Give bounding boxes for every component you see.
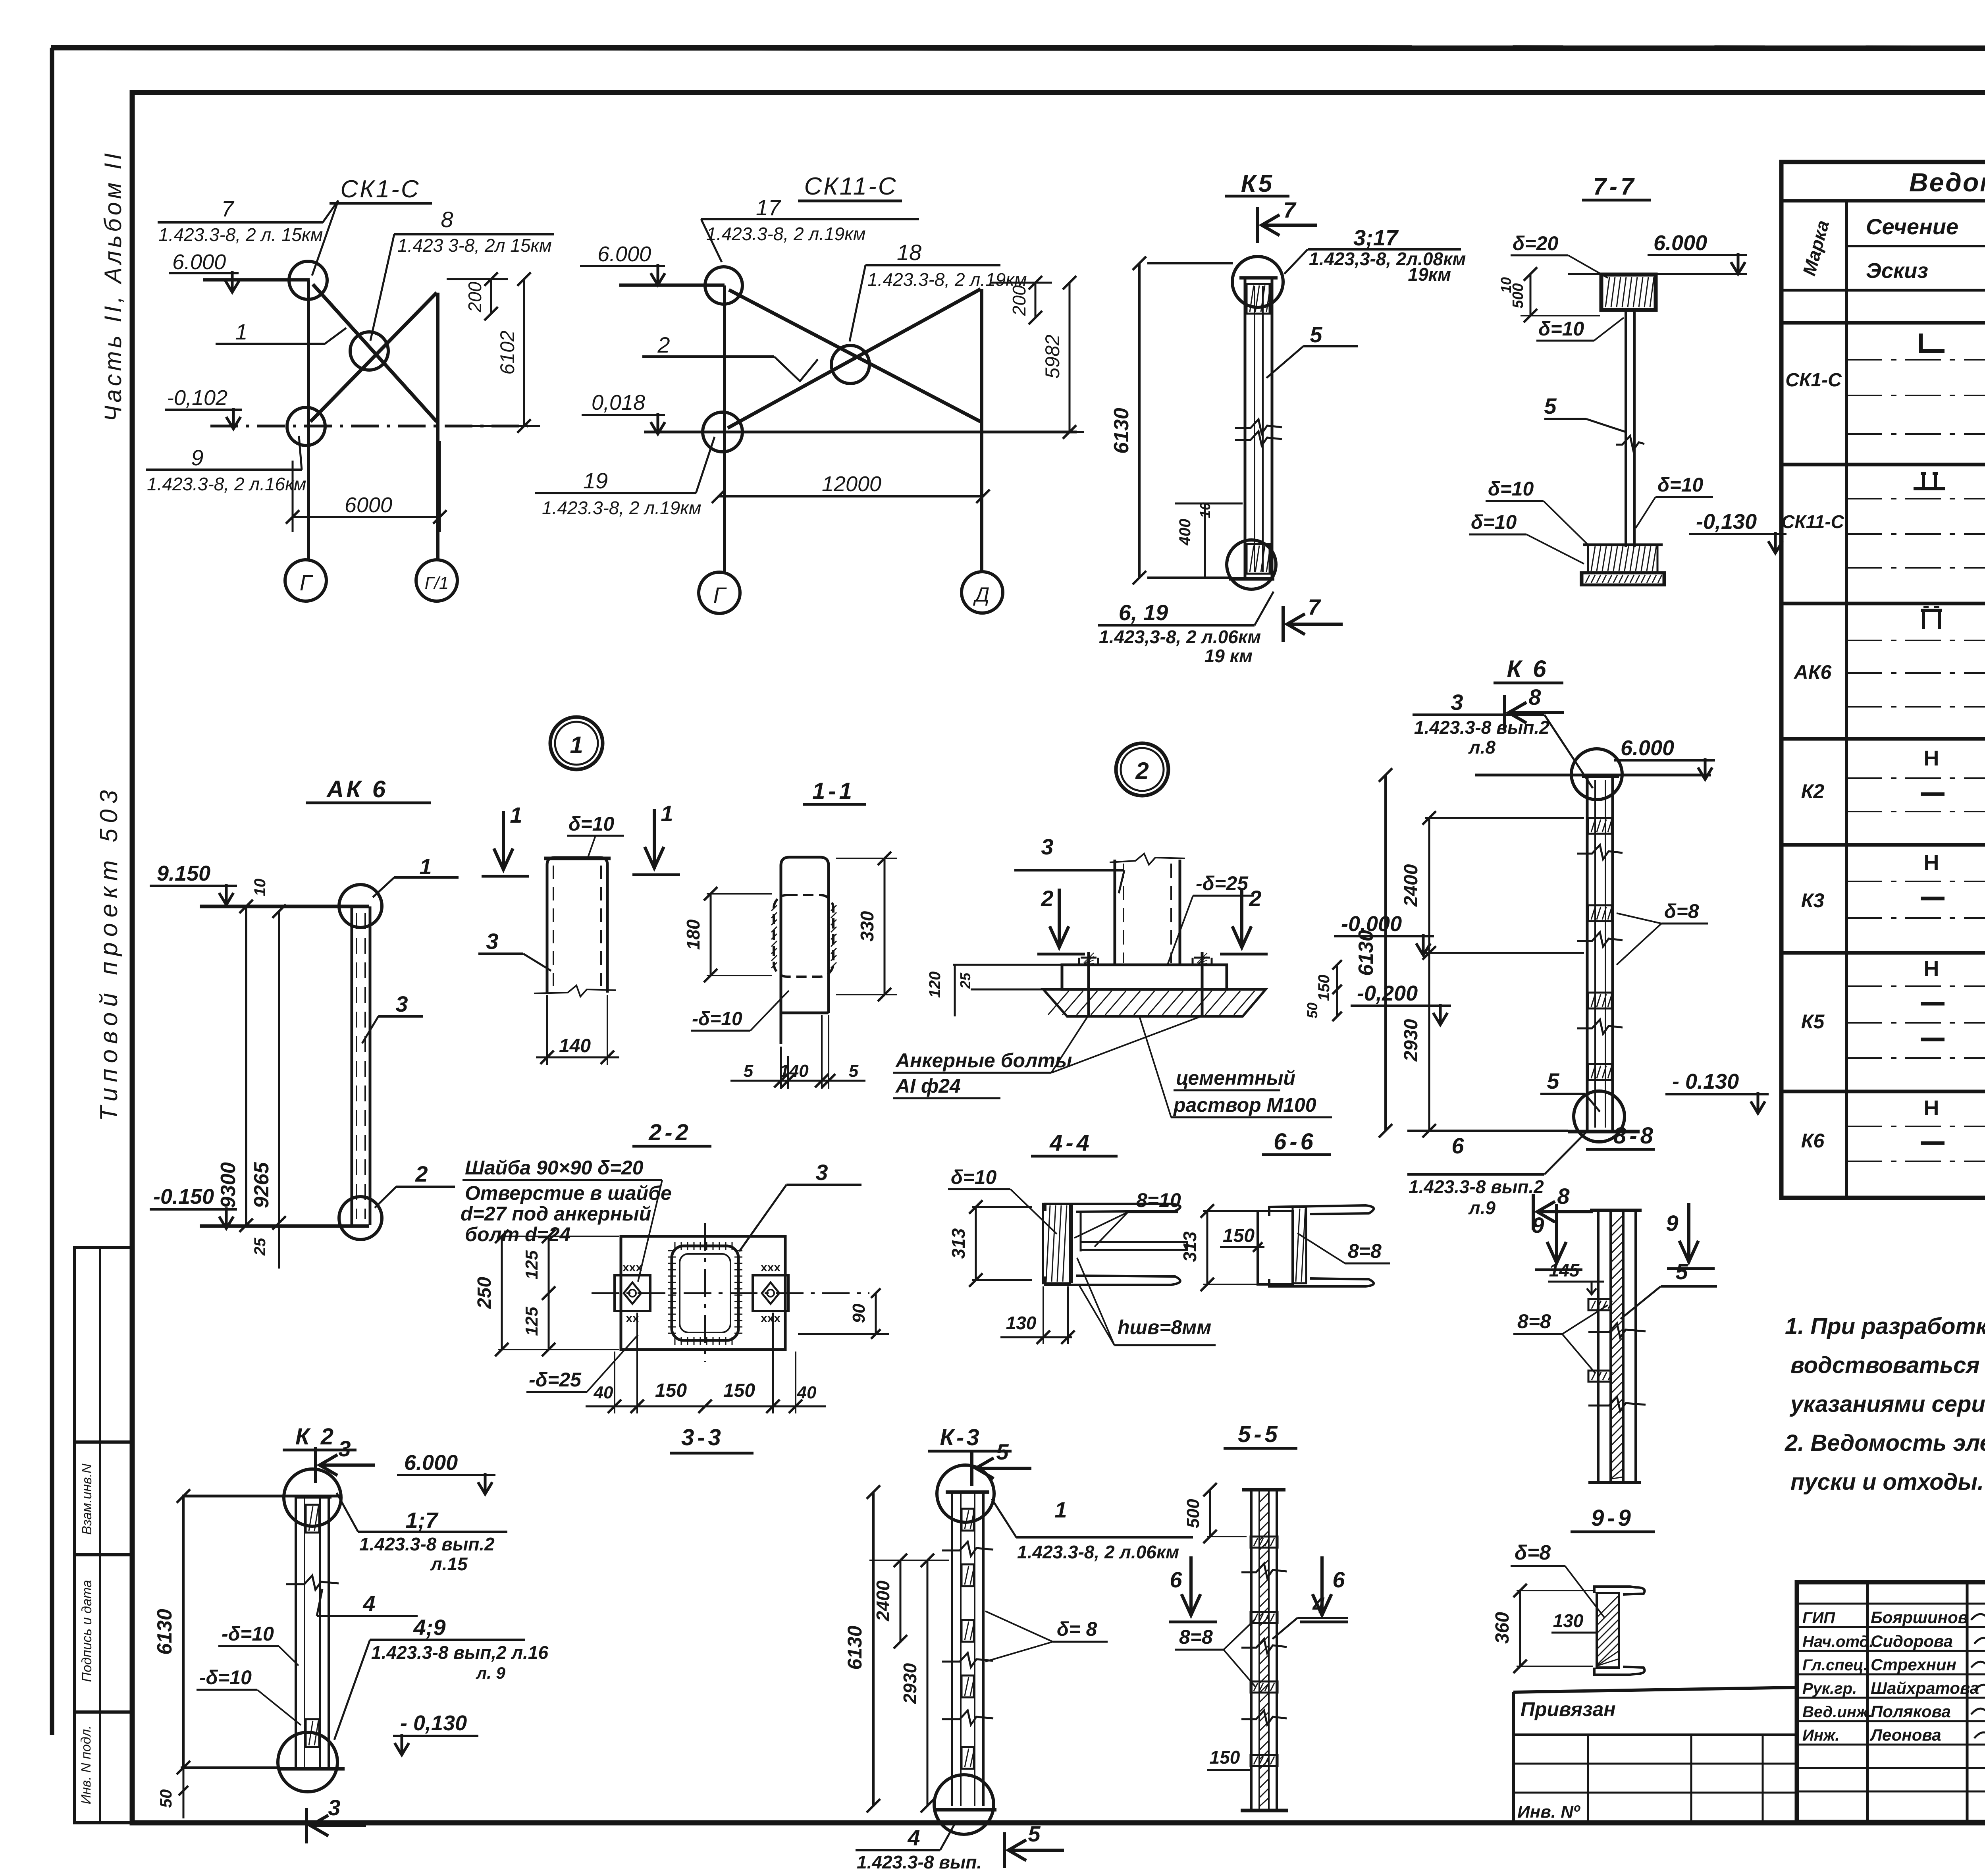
title block outer — [1797, 1582, 1985, 1822]
svg-text:Анкерные болты: Анкерные болты — [895, 1049, 1072, 1072]
svg-text:3: 3 — [1041, 834, 1053, 859]
1-1 inner rounded dashed box — [774, 895, 833, 977]
К6 dim 6130 — [1384, 775, 1387, 1131]
1-1 outer plate — [781, 857, 829, 1044]
3-3 column section hatched — [672, 1246, 738, 1340]
8-8 battens left — [1588, 1299, 1611, 1310]
9-9 web hatched — [1597, 1593, 1619, 1668]
svg-text:-0,102: -0,102 — [167, 386, 227, 410]
svg-text:δ=10: δ=10 — [951, 1166, 997, 1188]
svg-text:-δ=25: -δ=25 — [529, 1369, 582, 1391]
svg-text:xxx: xxx — [761, 1312, 781, 1325]
sheet outer border left — [50, 48, 54, 1735]
svg-text:δ=10: δ=10 — [1488, 478, 1534, 500]
svg-text:8=8: 8=8 — [1179, 1626, 1213, 1648]
svg-text:Г/1: Г/1 — [425, 573, 449, 593]
svg-text:болт d=24: болт d=24 — [465, 1223, 570, 1246]
svg-text:250: 250 — [474, 1277, 495, 1309]
1-1 weld ticks on box — [771, 905, 777, 911]
svg-text:Н: Н — [1924, 1096, 1939, 1120]
svg-text:Ведомость элементов: Ведомость элементов — [1909, 168, 1985, 197]
СК11-С right column — [980, 289, 983, 573]
svg-text:1.423,3-8, 2 л.06км: 1.423,3-8, 2 л.06км — [1099, 627, 1261, 647]
svg-text:330: 330 — [857, 911, 877, 941]
svg-text:7-7: 7-7 — [1593, 173, 1637, 200]
К5 section mark 7 bottom — [1282, 606, 1285, 642]
svg-text:6: 6 — [1170, 1567, 1182, 1592]
svg-text:200: 200 — [464, 281, 485, 312]
svg-text:6130: 6130 — [153, 1609, 176, 1655]
svg-text:3: 3 — [1451, 690, 1463, 715]
svg-text:17: 17 — [756, 195, 781, 220]
привязан bottom edge — [1513, 1820, 1797, 1824]
К2 column shaft — [295, 1497, 297, 1768]
7-7 base plate — [1581, 573, 1665, 585]
svg-text:25: 25 — [957, 972, 973, 989]
3-3 dim 125 upper — [548, 1236, 550, 1293]
svg-text:5: 5 — [744, 1061, 754, 1081]
svg-text:Рук.гр.: Рук.гр. — [1802, 1680, 1857, 1697]
svg-text:Н: Н — [1924, 957, 1939, 981]
svg-text:Нач.отд.: Нач.отд. — [1802, 1633, 1873, 1650]
svg-text:2: 2 — [1135, 758, 1149, 784]
8-8 chords — [1597, 1210, 1600, 1482]
СК11-С dim 200 — [990, 282, 1052, 284]
svg-text:δ= 8: δ= 8 — [1057, 1618, 1097, 1640]
svg-text:л.8: л.8 — [1468, 737, 1495, 758]
svg-text:СК11-С: СК11-С — [804, 173, 897, 200]
5-5 dim 500 — [1209, 1490, 1211, 1537]
svg-text:d=27 под анкерный: d=27 под анкерный — [461, 1203, 651, 1225]
svg-text:1.423.3-8, 2 л.19км: 1.423.3-8, 2 л.19км — [867, 269, 1027, 290]
channel top cap — [544, 857, 611, 860]
svg-text:-δ=10: -δ=10 — [692, 1008, 742, 1030]
svg-text:8: 8 — [1557, 1184, 1570, 1209]
row К5 -δ=20 — [1921, 1002, 1945, 1006]
svg-text:Стрехнин: Стрехнин — [1871, 1655, 1956, 1674]
row L90x7 — [1921, 334, 1945, 351]
svg-text:3: 3 — [328, 1795, 340, 1820]
svg-text:δ=8: δ=8 — [1515, 1541, 1551, 1564]
svg-text:180: 180 — [683, 919, 703, 950]
СК11-С diagonal brace 1 — [729, 290, 981, 422]
СК1-С grid circle Г — [285, 560, 326, 601]
svg-text:6102: 6102 — [496, 330, 518, 374]
svg-text:6: 6 — [1451, 1133, 1464, 1158]
svg-text:6.000: 6.000 — [172, 250, 226, 274]
svg-text:6130: 6130 — [1355, 930, 1378, 976]
К-3 dims 6130 2400 2930 — [872, 1492, 875, 1806]
5-5 section marks 6 down — [1181, 1556, 1201, 1616]
привязан block top slanted — [1513, 1687, 1797, 1692]
svg-text:8=8: 8=8 — [1517, 1310, 1551, 1332]
svg-text:150: 150 — [1315, 975, 1333, 1001]
СК1-С top chord — [203, 278, 310, 281]
svg-text:8=8: 8=8 — [1348, 1240, 1382, 1262]
svg-text:ГИП: ГИП — [1802, 1609, 1835, 1627]
К2 battens hatched — [306, 1505, 319, 1533]
svg-text:1.423.3-8, 2 л. 15км: 1.423.3-8, 2 л. 15км — [158, 224, 323, 245]
svg-text:л.15: л.15 — [430, 1554, 468, 1574]
АК6 bottom base line — [200, 1224, 369, 1228]
svg-text:5: 5 — [1547, 1068, 1559, 1093]
svg-text:18: 18 — [897, 240, 921, 265]
svg-text:-0,130: -0,130 — [1696, 510, 1757, 534]
1-1 dim 330 — [884, 858, 886, 995]
8-8 top plate — [1590, 1209, 1642, 1212]
К2 base plate — [278, 1767, 345, 1771]
sheet outer border top — [51, 48, 1985, 48]
grout pad hatched — [1043, 989, 1266, 1016]
svg-text:5: 5 — [996, 1439, 1009, 1464]
svg-text:150: 150 — [1210, 1747, 1240, 1768]
svg-text:К5: К5 — [1801, 1010, 1825, 1033]
7-7 dim 500/10 left — [1530, 274, 1532, 316]
4-4 gusset — [1081, 1242, 1187, 1250]
svg-text:2: 2 — [1041, 886, 1053, 911]
row 100x8 — [1914, 474, 1945, 489]
АК6 dim 9265 — [278, 911, 280, 1223]
svg-text:δ=20: δ=20 — [1513, 232, 1559, 255]
svg-text:2930: 2930 — [1401, 1019, 1422, 1062]
К5 base batten — [1247, 544, 1270, 574]
svg-text:9.150: 9.150 — [157, 862, 210, 885]
СК1-С dim 6000 — [293, 516, 440, 518]
svg-text:19: 19 — [583, 468, 608, 493]
svg-text:xxx: xxx — [761, 1261, 781, 1274]
4-4 bottom flange curve — [1045, 1276, 1180, 1285]
АК6 shaft dashed inner — [356, 913, 357, 1219]
svg-text:9265: 9265 — [250, 1162, 273, 1208]
К5 base plate — [1229, 577, 1274, 581]
svg-text:Подпись и дата: Подпись и дата — [79, 1580, 94, 1682]
svg-text:125: 125 — [522, 1307, 542, 1336]
9-9 bottom flange — [1594, 1667, 1645, 1675]
СК1-С right column — [436, 293, 439, 559]
svg-text:Г: Г — [300, 570, 313, 595]
СК1-С grid circle Г/1 — [416, 560, 457, 601]
К-3 section mark 5 top — [970, 1450, 973, 1486]
К2 bottom chord line — [181, 1766, 278, 1769]
СК11-С dim 5982 — [1069, 283, 1071, 432]
svg-text:6: 6 — [1332, 1567, 1345, 1592]
row К6 -δ=8 — [1921, 1141, 1945, 1145]
К2 section mark 3 bottom — [305, 1808, 308, 1843]
4-4 dim 313 — [975, 1207, 977, 1280]
svg-text:цементный: цементный — [1176, 1067, 1295, 1089]
svg-text:12000: 12000 — [822, 472, 881, 496]
svg-text:313: 313 — [1179, 1231, 1200, 1262]
svg-text:5-5: 5-5 — [1238, 1421, 1281, 1447]
svg-text:10: 10 — [1197, 502, 1213, 518]
8-8 bottom plate — [1588, 1481, 1641, 1484]
svg-text:Н: Н — [1924, 746, 1939, 770]
К-3 base plate — [934, 1808, 996, 1812]
К5 section mark 7 top — [1256, 207, 1259, 243]
АК6 dim 9300 — [245, 906, 247, 1225]
svg-text:δ=8: δ=8 — [1664, 900, 1699, 922]
привязан block left edge — [1512, 1692, 1515, 1822]
svg-text:400: 400 — [1176, 519, 1194, 546]
5-5 base plate — [1241, 1809, 1288, 1812]
К-3 battens hatched — [962, 1509, 974, 1531]
svg-text:К5: К5 — [1241, 170, 1275, 197]
К5 top level line — [1147, 262, 1233, 264]
СК11-С left column — [723, 285, 726, 573]
svg-text:6.000: 6.000 — [1621, 736, 1674, 760]
svg-text:Шайба 90×90 δ=20: Шайба 90×90 δ=20 — [465, 1157, 644, 1179]
svg-text:1;7: 1;7 — [406, 1508, 439, 1533]
svg-text:-0.150: -0.150 — [153, 1185, 214, 1209]
svg-text:Типовой проект 503: Типовой проект 503 — [95, 785, 123, 1121]
svg-text:л. 9: л. 9 — [476, 1664, 505, 1682]
svg-text:5: 5 — [1028, 1821, 1041, 1846]
6-6 bottom flange curve — [1269, 1278, 1374, 1286]
7-7 break mark — [1616, 436, 1644, 450]
svg-text:пуски и отходы.: пуски и отходы. — [1790, 1469, 1984, 1495]
svg-text:2: 2 — [657, 332, 670, 357]
table sub-header line under Сечение — [1846, 245, 1985, 247]
svg-text:6.000: 6.000 — [597, 242, 651, 266]
svg-text:8-8: 8-8 — [1613, 1123, 1656, 1149]
svg-text:6.000: 6.000 — [404, 1451, 458, 1475]
row К2 -δ=10 — [1921, 792, 1945, 796]
svg-text:- 0.130: - 0.130 — [1672, 1070, 1739, 1093]
svg-text:2. Ведомость элементов состав: 2. Ведомость элементов составлена без за… — [1785, 1430, 1985, 1456]
svg-text:1.423.3-8 вып.2: 1.423.3-8 вып.2 — [359, 1534, 495, 1554]
svg-text:- 0,130: - 0,130 — [400, 1711, 467, 1735]
К6 dim 2400 — [1428, 818, 1430, 953]
svg-text:СК11-С: СК11-С — [1781, 511, 1844, 532]
svg-text:19 км: 19 км — [1204, 646, 1253, 666]
signature scribbles — [1971, 1611, 1985, 1620]
К6 section mark 8 top — [1503, 695, 1506, 731]
3-3 bottom dims 40 150 150 40 — [586, 1406, 826, 1407]
svg-text:Взам.инв.N: Взам.инв.N — [79, 1463, 94, 1535]
6-6 dim 313 — [1206, 1211, 1208, 1284]
grout hatch — [1048, 991, 1069, 1015]
base detail section marks 2 — [1050, 889, 1069, 948]
svg-text:500: 500 — [1183, 1499, 1203, 1528]
К2 dim 6130 — [182, 1496, 185, 1768]
svg-text:5: 5 — [1310, 322, 1322, 347]
svg-text:130: 130 — [1553, 1610, 1584, 1631]
row ГнП180 — [1921, 610, 1942, 629]
К2 break mark — [286, 1575, 339, 1590]
К6 bottom node circle — [1574, 1091, 1625, 1142]
bolt heads — [1084, 953, 1094, 963]
svg-text:6000: 6000 — [345, 493, 392, 517]
svg-text:150: 150 — [655, 1380, 687, 1401]
table column lines — [1845, 201, 1848, 1198]
3-3 left washer — [615, 1275, 650, 1311]
svg-text:К6: К6 — [1801, 1130, 1825, 1152]
svg-text:6, 19: 6, 19 — [1119, 600, 1168, 625]
svg-text:125: 125 — [522, 1250, 542, 1280]
svg-text:1.423.3-8 вып,2 л.16: 1.423.3-8 вып,2 л.16 — [371, 1642, 548, 1663]
svg-text:указаниями серии 1.423.3-8: указаниями серии 1.423.3-8 вып.2. — [1789, 1391, 1985, 1417]
СК11-С center node circle — [831, 345, 869, 384]
3-3 weld ticks around column — [675, 1242, 676, 1250]
К5 column shaft outer — [1244, 278, 1247, 578]
detail mark circle 2 — [1116, 743, 1168, 796]
9-9 dim 360 — [1519, 1591, 1521, 1666]
table title row line — [1781, 199, 1985, 202]
svg-text:8: 8 — [1528, 684, 1541, 710]
К-3 column shaft — [951, 1492, 953, 1806]
svg-text:1.423.3-8, 2 л.19км: 1.423.3-8, 2 л.19км — [542, 497, 701, 518]
stamp boxes column — [75, 1247, 132, 1823]
svg-text:раствор М100: раствор М100 — [1173, 1094, 1316, 1116]
svg-text:1: 1 — [1054, 1497, 1067, 1522]
svg-text:4-4: 4-4 — [1049, 1130, 1093, 1156]
К-3 bottom node circle — [934, 1775, 994, 1834]
svg-text:140: 140 — [779, 1061, 809, 1081]
svg-text:0,018: 0,018 — [592, 391, 645, 415]
СК1-С dim 6102 — [523, 279, 525, 426]
АК6 bottom node circle — [339, 1197, 382, 1240]
К5 break mark — [1235, 419, 1282, 434]
svg-text:Леонова: Леонова — [1869, 1726, 1941, 1744]
К6 base plate — [1568, 1130, 1640, 1134]
АК6 top plate line — [200, 905, 369, 908]
7-7 top level line — [1568, 273, 1747, 275]
svg-text:Шайхратова: Шайхратова — [1871, 1679, 1979, 1697]
СК1-С node circle bottom-left — [287, 407, 325, 445]
svg-text:К2: К2 — [1801, 780, 1825, 802]
base detail column break top — [1110, 854, 1185, 865]
К-3 top node circle — [937, 1465, 994, 1522]
К5 dim 400/10 — [1175, 503, 1243, 505]
svg-text:5: 5 — [1544, 393, 1557, 418]
svg-text:Сечение: Сечение — [1866, 214, 1958, 239]
СК11-С node circle top-left — [705, 267, 742, 304]
plan 3-3 base plate — [621, 1236, 785, 1350]
svg-text:1: 1 — [510, 802, 522, 827]
К5 dim 6130 — [1138, 263, 1141, 578]
4-4 flange plate hatched — [1043, 1204, 1070, 1283]
svg-text:5982: 5982 — [1041, 334, 1064, 378]
3-3 dim 90 right — [875, 1293, 877, 1334]
svg-text:л.9: л.9 — [1468, 1197, 1495, 1218]
4-4 web — [1071, 1204, 1073, 1283]
4-4 dim 130 — [1000, 1336, 1072, 1338]
К6 section mark 8 bottom — [1532, 1194, 1535, 1230]
К5 top node circle — [1232, 256, 1283, 307]
svg-text:-0,200: -0,200 — [1357, 981, 1418, 1005]
svg-text:1: 1 — [235, 319, 247, 344]
К-3 break marks — [942, 1542, 993, 1556]
channel dashed inner — [553, 866, 554, 989]
svg-text:δ=10: δ=10 — [1657, 474, 1704, 496]
К6 top node circle — [1571, 749, 1622, 800]
svg-text:Сидорова: Сидорова — [1871, 1632, 1953, 1650]
svg-text:150: 150 — [1223, 1225, 1255, 1246]
svg-text:АК 6: АК 6 — [326, 776, 388, 802]
row К3 -δ=8 — [1921, 897, 1945, 900]
svg-text:δ=10: δ=10 — [569, 813, 615, 835]
К6 top cap — [1582, 775, 1619, 778]
svg-text:1.423.3-8, 2 л.06км: 1.423.3-8, 2 л.06км — [1017, 1542, 1179, 1562]
anchor bolts — [1087, 952, 1090, 1016]
К-3 top cap — [946, 1490, 989, 1494]
СК1-С diagonal brace 2 — [310, 293, 437, 422]
6-6 web box — [1258, 1211, 1293, 1284]
svg-text:-δ=10: -δ=10 — [199, 1666, 252, 1689]
svg-text:1.423.3-8 вып.2: 1.423.3-8 вып.2 — [1414, 717, 1549, 738]
svg-text:5: 5 — [1675, 1259, 1688, 1284]
К6 bottom chord line — [1407, 1130, 1568, 1132]
svg-text:8=10: 8=10 — [1136, 1189, 1181, 1211]
svg-text:200: 200 — [1009, 285, 1029, 316]
svg-text:3-3: 3-3 — [681, 1425, 724, 1450]
СК11-С top chord — [619, 283, 725, 287]
svg-text:СК1-С: СК1-С — [1785, 370, 1842, 391]
svg-text:К 2: К 2 — [295, 1424, 336, 1450]
svg-text:7: 7 — [221, 196, 234, 221]
8-8 section marks 9 down — [1547, 1204, 1566, 1264]
К6 top chord line — [1475, 774, 1711, 777]
СК11-С dim 12000 — [719, 495, 983, 497]
3-3 dim 250 — [501, 1236, 503, 1350]
svg-text:АI ф24: АI ф24 — [895, 1075, 961, 1097]
svg-text:1: 1 — [570, 732, 583, 758]
К-3 section mark 5 bottom — [1003, 1832, 1006, 1868]
svg-text:9300: 9300 — [217, 1162, 240, 1208]
К5 bottom node circle — [1227, 540, 1276, 589]
СК1-С bottom chord — [210, 425, 528, 428]
8-8 break marks — [1588, 1323, 1646, 1338]
svg-text:2: 2 — [1249, 886, 1261, 911]
svg-text:Привязан: Привязан — [1521, 1698, 1616, 1720]
table row lines — [1781, 321, 1985, 325]
svg-text:9-9: 9-9 — [1591, 1505, 1634, 1531]
svg-text:145: 145 — [1549, 1260, 1580, 1280]
СК11-С bottom chord — [644, 431, 1077, 434]
base detail column shafts — [1114, 860, 1116, 965]
svg-text:δ=10: δ=10 — [1471, 511, 1517, 533]
svg-text:Н: Н — [1924, 851, 1939, 875]
5-5 battens — [1251, 1537, 1278, 1548]
svg-text:1.423.3-8 вып.2: 1.423.3-8 вып.2 — [1409, 1176, 1544, 1197]
svg-text:4: 4 — [907, 1825, 920, 1850]
svg-text:3: 3 — [486, 929, 498, 954]
row К5 -δ=10 — [1921, 1038, 1945, 1041]
1-1 dim 180 — [710, 894, 712, 976]
svg-text:Вед.инж.: Вед.инж. — [1802, 1703, 1873, 1721]
svg-text:Полякова: Полякова — [1871, 1702, 1951, 1721]
svg-text:СК1-С: СК1-С — [340, 175, 420, 203]
8-8 hatched web — [1611, 1215, 1623, 1228]
svg-text:50: 50 — [156, 1789, 175, 1808]
svg-text:3: 3 — [338, 1436, 351, 1461]
svg-text:10: 10 — [1498, 277, 1514, 293]
table Ведомость элементов outer box — [1781, 162, 1985, 1198]
svg-text:6-6: 6-6 — [1274, 1129, 1316, 1155]
АК6 top node circle — [339, 885, 382, 927]
svg-text:Инв. Nº: Инв. Nº — [1517, 1802, 1580, 1822]
СК1-С left column — [307, 280, 310, 559]
svg-text:3: 3 — [815, 1160, 828, 1185]
svg-text:1. При разработке конструкци: 1. При разработке конструкций на стадии … — [1785, 1313, 1985, 1339]
svg-text:Гл.спец.: Гл.спец. — [1802, 1656, 1868, 1674]
АК6 column shaft — [351, 906, 353, 1225]
svg-text:360: 360 — [1492, 1612, 1513, 1644]
svg-text:9: 9 — [1532, 1213, 1544, 1238]
6-6 flange hatched — [1293, 1207, 1306, 1283]
svg-text:8: 8 — [441, 207, 453, 232]
7-7 top flange plate — [1601, 274, 1656, 310]
